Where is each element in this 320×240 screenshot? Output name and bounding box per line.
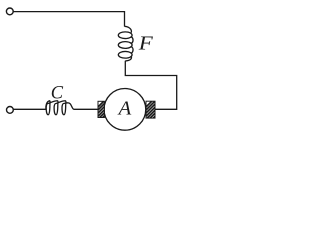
inductor F xyxy=(118,26,133,61)
terminal top-left xyxy=(6,8,13,15)
terminal bottom-left xyxy=(6,107,13,114)
svg-text:C: C xyxy=(51,83,64,104)
brush right xyxy=(131,100,177,122)
wire C to left brush xyxy=(74,108,98,110)
wire bottom-left (terminal to C) xyxy=(13,108,46,110)
brush left xyxy=(83,100,126,122)
svg-text:A: A xyxy=(117,98,132,120)
wire top (terminal to F) xyxy=(13,12,125,27)
wire F to right brush xyxy=(125,61,176,110)
armature circle xyxy=(104,89,146,131)
inductor C xyxy=(46,101,74,115)
svg-text:F: F xyxy=(138,34,154,55)
